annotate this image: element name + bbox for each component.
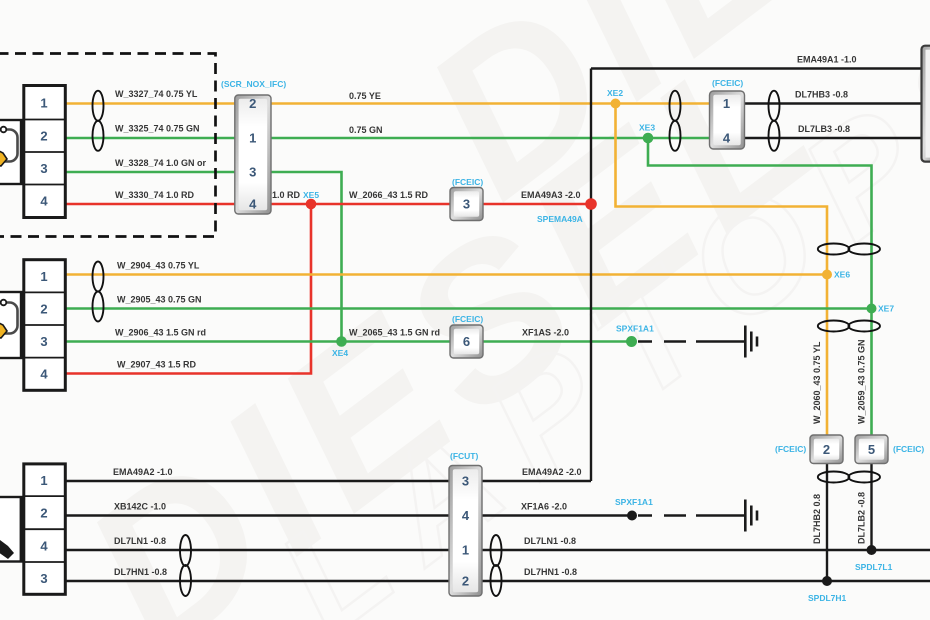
svg-text:4: 4 <box>462 508 470 523</box>
svg-text:W_2065_43 1.5 GN rd: W_2065_43 1.5 GN rd <box>349 328 440 338</box>
svg-text:(FCUT): (FCUT) <box>450 451 478 461</box>
svg-text:XB142C -1.0: XB142C -1.0 <box>114 502 166 512</box>
svg-text:DL7HN1 -0.8: DL7HN1 -0.8 <box>114 567 167 577</box>
svg-text:(FCEIC): (FCEIC) <box>893 444 924 454</box>
svg-text:3: 3 <box>40 334 47 349</box>
svg-text:EMA49A3 -2.0: EMA49A3 -2.0 <box>521 190 581 200</box>
svg-text:W_2060_43 0.75 YL: W_2060_43 0.75 YL <box>812 341 822 424</box>
svg-text:3: 3 <box>249 165 256 180</box>
svg-text:3: 3 <box>40 571 47 586</box>
svg-text:W_3330_74 1.0 RD: W_3330_74 1.0 RD <box>115 190 195 200</box>
svg-text:4: 4 <box>723 131 731 146</box>
svg-text:5: 5 <box>868 442 875 457</box>
svg-text:W_3327_74 0.75 YL: W_3327_74 0.75 YL <box>115 89 198 99</box>
svg-text:XE4: XE4 <box>332 348 348 358</box>
svg-text:W_2906_43 1.5 GN rd: W_2906_43 1.5 GN rd <box>115 328 206 338</box>
svg-text:W_2904_43 0.75 YL: W_2904_43 0.75 YL <box>117 261 200 271</box>
svg-text:XE5: XE5 <box>303 190 319 200</box>
svg-text:DL7HN1 -0.8: DL7HN1 -0.8 <box>524 567 577 577</box>
svg-text:2: 2 <box>40 506 47 521</box>
svg-text:(SCR_NOX_IFC): (SCR_NOX_IFC) <box>221 79 286 89</box>
svg-text:0.75 GN: 0.75 GN <box>349 125 383 135</box>
svg-text:2: 2 <box>40 302 47 317</box>
svg-text:W_2059_43 0.75 GN: W_2059_43 0.75 GN <box>857 339 867 424</box>
svg-text:XE2: XE2 <box>607 88 623 98</box>
svg-text:3: 3 <box>462 474 469 489</box>
svg-text:(FCEIC): (FCEIC) <box>775 444 806 454</box>
svg-text:4: 4 <box>40 194 48 209</box>
svg-text:EMA49A2 -2.0: EMA49A2 -2.0 <box>522 467 582 477</box>
svg-text:W_3325_74 0.75 GN: W_3325_74 0.75 GN <box>115 124 200 134</box>
svg-text:DL7LN1 -0.8: DL7LN1 -0.8 <box>114 536 166 546</box>
svg-text:XE7: XE7 <box>878 304 894 314</box>
svg-text:4: 4 <box>249 197 257 212</box>
svg-text:(FCEIC): (FCEIC) <box>712 78 743 88</box>
svg-text:DL7LB2 -0.8: DL7LB2 -0.8 <box>857 492 867 544</box>
svg-text:SPDL7L1: SPDL7L1 <box>855 562 893 572</box>
svg-text:SPEMA49A: SPEMA49A <box>537 214 583 224</box>
svg-text:1: 1 <box>40 473 47 488</box>
svg-text:SPXF1A1: SPXF1A1 <box>615 497 653 507</box>
svg-text:4: 4 <box>40 367 48 382</box>
svg-text:3: 3 <box>40 161 47 176</box>
svg-text:(FCEIC): (FCEIC) <box>452 177 483 187</box>
svg-text:EMA49A1 -1.0: EMA49A1 -1.0 <box>797 55 857 65</box>
svg-text:6: 6 <box>463 334 470 349</box>
svg-text:0.75 YE: 0.75 YE <box>349 91 381 101</box>
svg-text:2: 2 <box>40 129 47 144</box>
svg-text:XE6: XE6 <box>834 270 850 280</box>
svg-text:1: 1 <box>462 543 469 558</box>
svg-text:W_2066_43 1.5 RD: W_2066_43 1.5 RD <box>349 190 429 200</box>
svg-text:XF1AS -2.0: XF1AS -2.0 <box>522 328 569 338</box>
svg-text:1: 1 <box>249 131 256 146</box>
svg-text:2: 2 <box>823 442 830 457</box>
svg-text:2: 2 <box>249 96 256 111</box>
svg-text:DL7HB2 0.8: DL7HB2 0.8 <box>812 494 822 544</box>
svg-text:1.0 RD: 1.0 RD <box>272 190 301 200</box>
svg-text:1: 1 <box>40 96 47 111</box>
svg-text:XE3: XE3 <box>639 123 655 133</box>
svg-text:DL7LN1 -0.8: DL7LN1 -0.8 <box>524 536 576 546</box>
svg-text:(FCEIC): (FCEIC) <box>452 314 483 324</box>
svg-text:1: 1 <box>723 96 730 111</box>
svg-text:EMA49A2 -1.0: EMA49A2 -1.0 <box>113 467 173 477</box>
svg-text:XF1A6 -2.0: XF1A6 -2.0 <box>521 502 567 512</box>
svg-text:SPDL7H1: SPDL7H1 <box>808 593 847 603</box>
svg-text:4: 4 <box>40 539 48 554</box>
svg-text:2: 2 <box>462 574 469 589</box>
svg-text:1: 1 <box>40 269 47 284</box>
svg-text:W_3328_74 1.0 GN or: W_3328_74 1.0 GN or <box>115 158 207 168</box>
svg-text:W_2905_43 0.75 GN: W_2905_43 0.75 GN <box>117 295 202 305</box>
svg-text:DL7LB3 -0.8: DL7LB3 -0.8 <box>798 124 850 134</box>
svg-text:DL7HB3 -0.8: DL7HB3 -0.8 <box>795 90 848 100</box>
svg-text:SPXF1A1: SPXF1A1 <box>616 324 654 334</box>
svg-text:W_2907_43 1.5 RD: W_2907_43 1.5 RD <box>117 360 197 370</box>
svg-text:3: 3 <box>463 197 470 212</box>
